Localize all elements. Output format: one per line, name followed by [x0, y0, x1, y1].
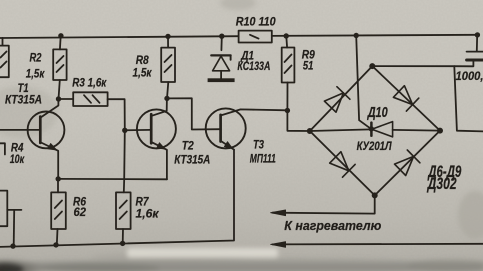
- node: R6 bottom on rail: [53, 242, 58, 247]
- wire: bridge bottom vertex down: [374, 195, 376, 213]
- resistor R9: [282, 36, 295, 110]
- resistor R6: [51, 179, 66, 245]
- transistor T2: [125, 99, 176, 180]
- svg-text:К нагревателю: К нагревателю: [284, 218, 381, 233]
- resistor R5 (cut off at left edge bottom) with tap: [0, 191, 21, 246]
- transistor T3: [206, 108, 288, 149]
- svg-text:62: 62: [74, 205, 87, 219]
- wire: T1 base from left edge: [0, 129, 39, 131]
- svg-text:МП111: МП111: [250, 152, 276, 166]
- svg-text:51: 51: [303, 59, 314, 73]
- svg-text:Д302: Д302: [426, 175, 456, 193]
- node: capacitor top on rail: [475, 32, 480, 37]
- resistor R1 (cut off at left edge): [0, 38, 9, 77]
- node: D1 top on rail: [219, 34, 224, 39]
- node: R2 top on rail: [58, 33, 63, 38]
- svg-text:Д10: Д10: [366, 105, 388, 121]
- capacitor C (1000uF, top right, cut at edge): [454, 35, 483, 66]
- svg-text:1,5к: 1,5к: [26, 67, 45, 81]
- resistor R8: [161, 36, 175, 98]
- wire: R9/T3-collector node down to bridge left vertex: [287, 110, 309, 131]
- node: D10 cathode / gate: [369, 126, 374, 131]
- svg-text:КС133А: КС133А: [237, 59, 270, 73]
- diode D7 (bridge top-right): [393, 86, 418, 111]
- node: R9 bottom / T3 collector: [285, 108, 290, 113]
- svg-text:1000,: 1000,: [456, 69, 483, 83]
- wire: bridge top vertex right to AC line corner and down to right out: [372, 66, 483, 131]
- wire: bottom common rail with corner up to T3 emitter: [0, 150, 234, 247]
- svg-text:1,5к: 1,5к: [133, 66, 153, 80]
- svg-text:R10 110: R10 110: [236, 15, 276, 29]
- svg-text:КТ315А: КТ315А: [5, 93, 42, 107]
- node: bridge top vertex: [369, 63, 375, 69]
- node: R9 top on rail: [284, 33, 289, 38]
- wire: emitter bus T1-T2: [58, 178, 167, 180]
- wire: bridge diagonal top-left: [310, 66, 373, 131]
- node: T1 emitter / R6 / emitter bus: [56, 176, 61, 181]
- diode D8 (bridge bottom-left): [330, 152, 355, 178]
- node: R7 bottom on rail: [120, 241, 125, 246]
- wire: top supply rail right segment: [272, 35, 478, 36]
- node: bridge right vertex: [437, 128, 443, 134]
- node: T2 base / R3 / R7: [122, 128, 127, 133]
- wire: bridge diagonal top-right: [372, 66, 440, 131]
- svg-text:КУ201Л: КУ201Л: [357, 139, 393, 153]
- resistor R7: [116, 130, 131, 243]
- wire: top supply rail left segment: [0, 36, 239, 38]
- svg-text:Т2: Т2: [182, 139, 194, 153]
- diode D6 (bridge top-left): [324, 87, 350, 113]
- resistor R2: [53, 36, 66, 99]
- node: R8 top on rail: [165, 34, 170, 39]
- svg-text:10к: 10к: [10, 152, 25, 166]
- wire: T2 collector node to T3 base: [167, 98, 220, 129]
- wire: heater output arrow lower (AC line): [271, 242, 483, 248]
- node: bridge left vertex: [307, 128, 313, 134]
- diode D9 (bridge bottom-right): [395, 150, 420, 176]
- node: T2 collector / R8 / T3 base: [164, 96, 169, 101]
- wire: D10 gate up to top rail: [356, 36, 371, 129]
- svg-text:R2: R2: [30, 51, 42, 65]
- wire: bridge diagonal bottom-right: [375, 131, 440, 196]
- wire: bridge diagonal bottom-left: [310, 131, 375, 195]
- resistor R4 (cut off at left edge, corner only): [0, 143, 5, 154]
- thyristor D10 across bridge: [310, 122, 440, 137]
- wire: heater output arrow upper: [271, 210, 375, 216]
- node: T1 collector / R2 / R3: [56, 96, 61, 101]
- resistor R10 (in-line in top rail): [239, 31, 272, 43]
- node: gate wire on rail: [354, 33, 359, 38]
- svg-text:R3 1,6к: R3 1,6к: [72, 76, 107, 90]
- svg-text:Т3: Т3: [253, 138, 264, 152]
- node: left tap on bottom rail: [10, 243, 15, 248]
- resistor R3: [59, 92, 125, 130]
- svg-text:1,6к: 1,6к: [136, 207, 160, 221]
- transistor T1: [28, 99, 65, 179]
- svg-text:КТ315А: КТ315А: [174, 153, 210, 167]
- zener diode D1: [208, 36, 235, 82]
- node: bridge bottom vertex: [372, 192, 378, 198]
